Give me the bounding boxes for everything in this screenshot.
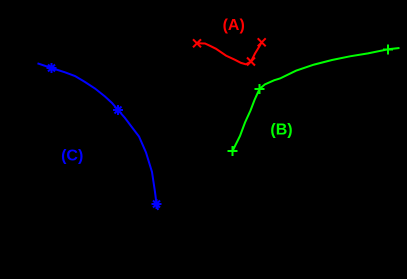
marker B1 (+): [228, 146, 238, 156]
marker A3 (x): [258, 38, 266, 46]
svg-text:(B): (B): [270, 121, 292, 138]
marker B2 (+): [255, 84, 265, 94]
marker C3 (*): [152, 199, 162, 209]
svg-text:(C): (C): [61, 148, 83, 165]
marker B3 (+): [383, 45, 393, 55]
curve C (blue): [38, 63, 159, 210]
svg-text:(A): (A): [223, 17, 245, 34]
curve B (green): [233, 48, 400, 151]
curve A (red): [197, 42, 262, 64]
marker C2 (*): [113, 105, 123, 115]
marker A2 (x): [247, 58, 255, 66]
marker C1 (*): [47, 63, 57, 73]
marker A1 (x): [193, 39, 201, 47]
